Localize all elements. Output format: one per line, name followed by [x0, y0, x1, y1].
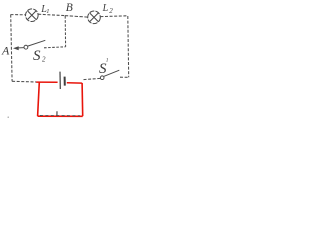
wire top-left segment: [11, 14, 26, 16]
wire left side: [11, 15, 12, 82]
lamp L2: [88, 11, 101, 24]
red wire battery right lead: [67, 82, 82, 84]
svg-text:A: A: [1, 44, 10, 58]
arrow at node A: [13, 46, 19, 50]
wire node B to lamp L2: [65, 16, 88, 18]
wire battery to switch S1: [84, 78, 101, 79]
tick on bottom wire: [56, 111, 58, 115]
wire S1 to bottom-right corner: [120, 76, 129, 78]
red wire left vertical: [38, 82, 40, 116]
svg-text:B: B: [66, 2, 73, 14]
svg-text:S: S: [33, 48, 41, 64]
black dashes over red bottom wire: [40, 115, 80, 117]
svg-text:2: 2: [109, 7, 113, 15]
svg-text:1: 1: [46, 8, 49, 15]
svg-text:2: 2: [42, 56, 46, 64]
wire L1 to node B: [38, 14, 65, 15]
switch S2: [24, 40, 45, 49]
wire bottom-left segment: [12, 80, 36, 83]
wire right side: [127, 16, 130, 77]
wire arrow to switch S2: [19, 47, 24, 49]
lamp L1: [26, 9, 39, 22]
wire middle vertical to node B: [64, 16, 66, 47]
svg-text:L: L: [102, 3, 109, 14]
battery long plate: [59, 72, 61, 89]
wire L2 to top-right corner: [100, 15, 127, 18]
red wire battery left lead: [36, 81, 57, 83]
red wire right vertical: [81, 83, 84, 116]
wire S2 to middle corner: [44, 47, 66, 48]
speck bottom-left: [8, 117, 9, 118]
battery short plate: [64, 77, 66, 86]
switch S1: [100, 70, 119, 79]
svg-text:1: 1: [106, 58, 109, 64]
red wire bottom: [38, 115, 83, 117]
